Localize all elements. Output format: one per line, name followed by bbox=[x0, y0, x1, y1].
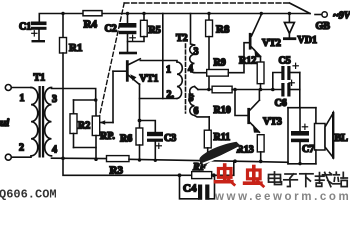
node R8 top bbox=[207, 12, 210, 15]
wire top supply rail bbox=[39, 14, 310, 22]
wire output node vertical bbox=[299, 73, 301, 108]
svg-text:R10: R10 bbox=[214, 105, 231, 116]
svg-text:C7: C7 bbox=[302, 144, 314, 155]
switch blade to battery bbox=[290, 3, 311, 14]
T2 primary winding bbox=[177, 62, 182, 98]
input terminal upper bbox=[5, 85, 11, 91]
svg-text:R4: R4 bbox=[84, 19, 98, 31]
speaker BL bbox=[315, 108, 334, 164]
resistor RF bbox=[180, 161, 234, 178]
wire T1 secondary top to R2/RP block bbox=[52, 89, 96, 101]
svg-text:VT2: VT2 bbox=[262, 38, 281, 49]
svg-text:3: 3 bbox=[194, 47, 199, 58]
node RF left bbox=[178, 173, 182, 177]
svg-text:6: 6 bbox=[194, 106, 199, 117]
swoosh annotation dark bbox=[199, 142, 241, 165]
watermark bug icon 2 bbox=[245, 167, 264, 187]
T1 core bbox=[39, 86, 45, 158]
transistor VT3 bbox=[235, 90, 260, 133]
resistor R1 bbox=[60, 14, 67, 159]
svg-text:RP.: RP. bbox=[100, 131, 115, 142]
svg-text:T2: T2 bbox=[176, 33, 188, 44]
svg-text:1: 1 bbox=[166, 65, 171, 76]
svg-text:BL: BL bbox=[335, 133, 349, 144]
capacitor C6 bbox=[281, 80, 300, 96]
battery terminal GB bbox=[315, 12, 327, 17]
wire T2 primary bottom to emitter column bbox=[140, 98, 178, 100]
node R1 bottom bbox=[61, 157, 65, 161]
wire feedback rail drop bbox=[63, 158, 180, 175]
node R1 top bbox=[61, 12, 64, 15]
svg-text:R2: R2 bbox=[78, 121, 90, 132]
glyph zi bbox=[284, 174, 298, 187]
resistor R5 bbox=[128, 14, 148, 42]
wire mid horizontal 5-R10-C6 bbox=[198, 89, 212, 91]
wire output top horizontal bbox=[288, 107, 316, 109]
glyph xia bbox=[300, 174, 313, 187]
node R5 top bbox=[142, 12, 145, 15]
T2 secondary winding 3-4 bbox=[190, 14, 195, 73]
wire output loop left vertical bbox=[287, 108, 289, 164]
svg-text:R12: R12 bbox=[239, 56, 256, 67]
resistor R4 bbox=[83, 11, 102, 16]
svg-text:VT3: VT3 bbox=[263, 117, 282, 128]
resistor R12 bbox=[257, 62, 264, 90]
capacitor C4 loop bbox=[180, 175, 215, 200]
resistor R9 bbox=[195, 43, 249, 76]
resistor R13 bbox=[257, 135, 264, 162]
svg-text:R6: R6 bbox=[120, 134, 132, 145]
resistor R11 bbox=[204, 130, 211, 158]
svg-text:Q606.COM: Q606.COM bbox=[0, 188, 57, 202]
wire bottom rail right of R3 bbox=[129, 159, 288, 162]
svg-text:T1: T1 bbox=[34, 73, 46, 84]
svg-text:C4: C4 bbox=[183, 183, 197, 195]
node C7 bottom bbox=[298, 162, 301, 165]
svg-text:R1: R1 bbox=[69, 42, 82, 54]
capacitor C2 bbox=[119, 14, 137, 55]
T2 core bbox=[185, 44, 187, 113]
capacitor C1 bbox=[31, 22, 47, 43]
wire input upper bbox=[11, 87, 31, 89]
wire T2 pin6 to R11 bbox=[208, 117, 210, 130]
wire R2 RP bottom bar bbox=[74, 148, 97, 160]
potentiometer RP bbox=[92, 100, 113, 148]
watermark text dianzi xiazaizhan bbox=[269, 172, 348, 187]
svg-text:C3: C3 bbox=[164, 133, 176, 144]
node R6 bottom bbox=[138, 158, 141, 161]
glyph dian bbox=[269, 172, 282, 185]
svg-text:C5: C5 bbox=[279, 56, 291, 67]
wire main bottom rail bbox=[52, 157, 107, 159]
svg-text:GB: GB bbox=[316, 21, 331, 32]
node rail RF loop rejoin bbox=[233, 159, 237, 163]
input terminal lower bbox=[5, 154, 11, 160]
node RF right bbox=[212, 173, 216, 177]
node R10 left bbox=[207, 88, 210, 91]
watermark bug icon 1 bbox=[216, 165, 235, 185]
svg-text:C1: C1 bbox=[19, 22, 31, 33]
transistor VT2 bbox=[249, 15, 261, 63]
node C2 top bbox=[126, 12, 129, 15]
node VT3 base column bbox=[233, 88, 237, 92]
svg-text:R11: R11 bbox=[214, 132, 231, 143]
node R12 bottom bbox=[259, 88, 263, 92]
resistor R8 bbox=[206, 14, 213, 90]
wire VT1 emitter column bbox=[139, 84, 141, 121]
diode VD1 bbox=[283, 14, 296, 41]
svg-text:ui: ui bbox=[0, 117, 10, 129]
svg-text:VD1: VD1 bbox=[298, 35, 317, 46]
resistor R3 bbox=[107, 156, 130, 162]
node VD1 top bbox=[288, 12, 291, 15]
wire output bottom bbox=[288, 163, 316, 165]
svg-text:VT1: VT1 bbox=[140, 74, 159, 85]
node RP bottom rail bbox=[94, 157, 98, 161]
capacitor C7 bbox=[291, 108, 309, 164]
node R13 VT3 bottom bbox=[259, 160, 263, 164]
wire VT1 collector to T2 primary bbox=[140, 61, 177, 63]
resistor R2 bbox=[70, 100, 77, 148]
svg-text:4: 4 bbox=[52, 145, 57, 156]
node C3 bottom bbox=[154, 159, 157, 162]
svg-text:R5: R5 bbox=[149, 25, 161, 36]
wire R10 to C6 bbox=[232, 89, 281, 91]
svg-text:C6: C6 bbox=[275, 98, 287, 109]
resistor R10 bbox=[212, 86, 232, 93]
node VT2 collector bbox=[260, 12, 263, 15]
dashed switch link box top bbox=[124, 2, 289, 4]
T1 secondary winding bbox=[45, 88, 52, 156]
svg-text:3: 3 bbox=[52, 94, 57, 105]
T1 primary winding bbox=[31, 88, 38, 156]
svg-text:C2: C2 bbox=[105, 24, 117, 35]
glyph zhan bbox=[333, 172, 347, 186]
wire VT1 base to RP wiper bbox=[112, 71, 114, 122]
svg-text:2: 2 bbox=[19, 143, 24, 154]
capacitor C5 bbox=[273, 63, 300, 89]
T2 secondary winding 5-6 bbox=[190, 87, 209, 117]
svg-text:5: 5 bbox=[189, 93, 194, 104]
glyph zai bbox=[316, 172, 332, 186]
svg-text:R9: R9 bbox=[214, 58, 226, 69]
wire R2 RP top bar bbox=[74, 99, 96, 101]
wire input lower bbox=[11, 156, 31, 158]
svg-text:4: 4 bbox=[188, 64, 193, 75]
resistor R6 bbox=[136, 121, 143, 161]
capacitor C3 bbox=[140, 121, 164, 161]
svg-text:2.: 2. bbox=[167, 90, 175, 101]
node RP top bbox=[94, 98, 98, 102]
svg-text:www.eeworm.com: www.eeworm.com bbox=[214, 191, 350, 203]
wire vertical from rail crossing collector wire bbox=[162, 14, 164, 99]
svg-text:~9V: ~9V bbox=[333, 11, 350, 22]
node emitter R6 C3 junction bbox=[138, 119, 142, 123]
dashed mechanical link to RP bbox=[100, 3, 125, 116]
transistor VT1 bbox=[113, 59, 140, 85]
node C5 branch bbox=[271, 88, 275, 92]
swoosh annotation white separator bbox=[203, 147, 239, 163]
svg-text:R8: R8 bbox=[216, 24, 230, 36]
svg-text:1: 1 bbox=[20, 93, 25, 104]
